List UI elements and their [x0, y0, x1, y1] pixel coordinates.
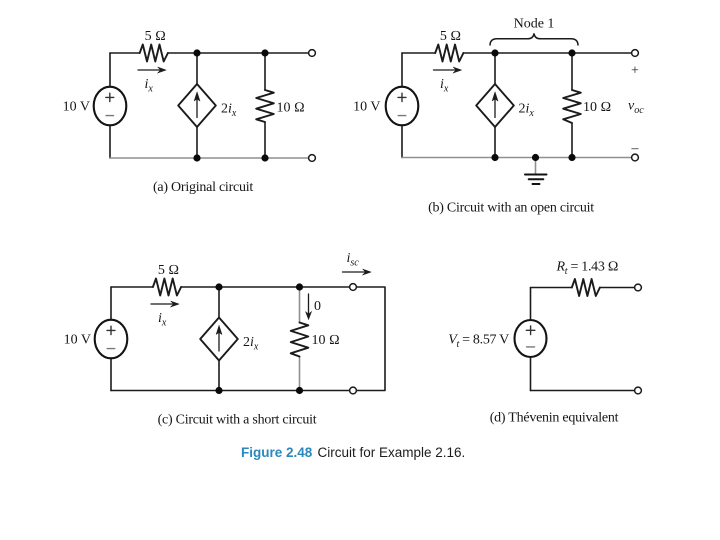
svg-text:Circuit for Example 2.16.: Circuit for Example 2.16. [318, 445, 466, 460]
arrow inside dependent source (a) [194, 92, 200, 118]
dependent source 2ix diamond (a) [178, 84, 216, 127]
terminal (d) bottom open [635, 387, 642, 394]
svg-text:(c) Circuit with a short circu: (c) Circuit with a short circuit [158, 413, 317, 428]
wire: (d) top rail right segment [600, 287, 638, 289]
node dot (b) bottom-middle ground junction [532, 154, 539, 161]
wire: (a) left vertical top [109, 53, 111, 87]
svg-text:Figure 2.48: Figure 2.48 [241, 445, 313, 460]
terminal (b) bottom open [632, 154, 639, 161]
arrow inside dependent source (c) [216, 326, 222, 352]
wire: (b) left vertical bottom [401, 125, 403, 158]
wire: (c) dependent source bottom lead [218, 361, 220, 391]
svg-text:Node 1: Node 1 [514, 17, 555, 32]
current arrow ix (c) [151, 301, 179, 307]
resistor 10ohm (c) [291, 323, 309, 357]
wire: (b) top rail left segment [402, 52, 435, 54]
current arrow ix (a) [138, 67, 166, 73]
svg-text:10 V: 10 V [353, 100, 380, 115]
svg-text:(b) Circuit with an open circu: (b) Circuit with an open circuit [428, 201, 594, 216]
wire: (b) top rail middle segment [463, 52, 635, 54]
resistor Rt (d) [572, 279, 600, 296]
voltage source Vt (d) [515, 320, 547, 357]
node dot (c) top-left junction [215, 283, 222, 290]
wire: (a) left vertical bottom [109, 125, 111, 158]
wire: (d) bottom rail [531, 390, 639, 392]
arrow inside dependent source (b) [492, 92, 498, 118]
svg-text:5 Ω: 5 Ω [440, 29, 461, 44]
svg-text:+: + [631, 64, 639, 79]
wire: (a) 10ohm bottom lead [264, 122, 266, 158]
node dot (b) node1 left junction [491, 49, 498, 56]
wire: (d) left vertical bottom [530, 357, 532, 391]
wire: (c) left vertical top [110, 287, 112, 320]
wire: (b) left vertical top [401, 53, 403, 87]
resistor 10ohm (a) [256, 90, 274, 122]
wire: (c) 10ohm top lead [299, 287, 301, 323]
svg-text:10 V: 10 V [64, 333, 91, 348]
dependent source 2ix diamond (b) [476, 84, 514, 127]
svg-text:10 Ω: 10 Ω [583, 100, 611, 115]
terminal (a) top open [309, 50, 316, 57]
node dot (a) top-left junction [193, 49, 200, 56]
wire: (b) 10ohm top lead [571, 53, 573, 90]
wire: (d) left vertical top [530, 288, 532, 321]
svg-text:(d) Thévenin equivalent: (d) Thévenin equivalent [490, 411, 619, 426]
node dot (c) top-right junction [296, 283, 303, 290]
node dot (c) bottom-right junction [296, 387, 303, 394]
wire: (c) dependent source top lead [218, 287, 220, 318]
resistor 5ohm (c) [153, 279, 181, 296]
ground stub wire (b) [535, 158, 537, 175]
svg-text:5 Ω: 5 Ω [158, 263, 179, 278]
resistor R 5ohm (a) [140, 45, 168, 62]
svg-text:10 V: 10 V [63, 100, 90, 115]
dependent source 2ix diamond (c) [200, 318, 238, 361]
current arrow ix (b) [434, 67, 462, 73]
voltage source 10V (b) [386, 87, 419, 126]
terminal (c) top on wire [350, 284, 357, 291]
svg-text:10 Ω: 10 Ω [312, 333, 340, 348]
current arrow isc (c) [343, 269, 372, 275]
wire: (a) bottom rail [110, 157, 312, 159]
svg-text:5 Ω: 5 Ω [145, 29, 166, 44]
node dot (c) bottom-left junction [215, 387, 222, 394]
ground symbol (b) [525, 175, 547, 185]
terminal (d) top open [635, 284, 642, 291]
wire: (c) top rail left segment [111, 286, 153, 288]
voltage source 10V (a) [94, 87, 127, 126]
wire: (c) left vertical bottom [110, 358, 112, 391]
wire: (a) top rail left segment [110, 52, 140, 54]
wire: (a) dependent source top lead [196, 53, 198, 84]
resistor 10ohm (b) [563, 90, 581, 123]
node dot (a) bottom-left junction [193, 154, 200, 161]
node dot (b) bottom-left junction [491, 154, 498, 161]
current arrow 0 down (c) [306, 294, 312, 320]
wire: (b) bottom rail [402, 157, 635, 159]
voltage source 10V (c) [95, 320, 128, 359]
wire: (d) top rail left segment [531, 287, 572, 289]
wire: (b) dependent source top lead [494, 53, 496, 84]
wire: (c) top rail middle and short-circuit right side [111, 287, 385, 391]
svg-text:–: – [631, 141, 640, 156]
svg-text:0: 0 [314, 299, 321, 314]
resistor 5ohm (b) [435, 45, 463, 62]
svg-text:(a) Original circuit: (a) Original circuit [153, 180, 253, 195]
wire: (c) 10ohm bottom lead [299, 357, 301, 391]
node dot (b) bottom-right junction [568, 154, 575, 161]
terminal (b) top open [632, 50, 639, 57]
wire: (b) dependent source bottom lead [494, 127, 496, 158]
node dot (a) top-right junction [261, 49, 268, 56]
terminal (c) bottom on wire [350, 387, 357, 394]
wire: (a) 10ohm top lead [264, 53, 266, 90]
svg-text:10 Ω: 10 Ω [277, 101, 305, 116]
terminal (a) bottom open [309, 155, 316, 162]
wire: (a) top rail middle segment [168, 52, 312, 54]
node dot (a) bottom-right junction [261, 154, 268, 161]
brace Node 1 (b) [490, 34, 578, 45]
wire: (a) dependent source bottom lead [196, 127, 198, 158]
wire: (b) 10ohm bottom lead [571, 123, 573, 158]
node dot (b) node1 right junction [568, 49, 575, 56]
